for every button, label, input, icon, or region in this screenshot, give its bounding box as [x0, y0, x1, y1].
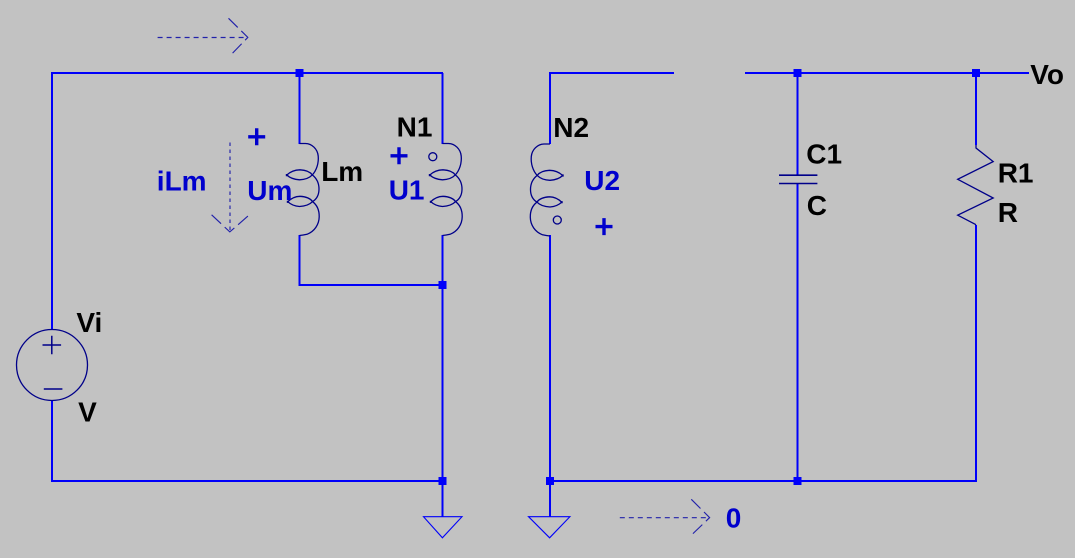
- transformer winding N1 coil arcs: [443, 144, 463, 236]
- node junction at Lm top: [296, 69, 304, 77]
- svg-text:N1: N1: [397, 111, 433, 142]
- transformer N2 polarity dot: [553, 216, 561, 224]
- transformer N2 leaf tip marks: [561, 174, 564, 203]
- svg-text:iLm: iLm: [157, 166, 207, 197]
- wire N1 top drop: [442, 73, 444, 144]
- current arrow iLm (downward): [212, 143, 250, 233]
- wire Lm bottom to node: [299, 284, 443, 286]
- svg-text:0: 0: [726, 503, 742, 534]
- svg-text:R1: R1: [998, 158, 1034, 189]
- current arrow top (input current): [158, 18, 248, 56]
- wire top rail right: [745, 72, 1029, 74]
- label plus U2: [596, 218, 613, 235]
- svg-text:R: R: [998, 197, 1018, 228]
- capacitor C1 plates: [779, 175, 817, 183]
- wire C1 top drop: [797, 73, 799, 175]
- ground secondary: [529, 481, 570, 538]
- inductor Lm leaf 1: [287, 170, 313, 180]
- wire N1 bottom drop: [442, 235, 444, 285]
- svg-text:V: V: [78, 396, 97, 427]
- wire R1 top drop: [975, 73, 977, 145]
- svg-text:N2: N2: [553, 112, 589, 143]
- wire C1 bottom drop: [797, 184, 799, 481]
- resistor R1 zigzag: [958, 145, 994, 225]
- node junction primary ground: [439, 477, 447, 485]
- wire bottom rail right: [550, 480, 976, 482]
- transformer winding N2 coil arcs: [530, 144, 550, 236]
- voltage source plus: [43, 336, 62, 355]
- transformer N2 leaf 2: [537, 197, 562, 207]
- arrow node 0 (output reference): [620, 499, 710, 536]
- svg-text:Vi: Vi: [76, 307, 102, 338]
- wire bottom rail left: [51, 480, 443, 482]
- svg-text:Lm: Lm: [321, 156, 363, 187]
- transformer N1 leaf 2: [431, 196, 456, 206]
- transformer N1 leaf 1: [430, 170, 456, 180]
- wire Lm top drop: [299, 73, 301, 144]
- wire N2 top drop: [549, 72, 551, 144]
- svg-text:Um: Um: [247, 175, 292, 206]
- inductor Lm leaf 2: [288, 196, 313, 206]
- node junction C1 bottom: [794, 477, 802, 485]
- wire left column lower: [51, 400, 53, 482]
- node junction secondary ground: [546, 477, 554, 485]
- label plus Um: [248, 128, 265, 145]
- voltage source minus: [44, 388, 63, 390]
- svg-text:Vo: Vo: [1030, 59, 1064, 90]
- inductor Lm coil arcs: [300, 144, 320, 236]
- wire N2 bottom drop: [549, 235, 551, 482]
- voltage source Vi circle: [17, 330, 88, 401]
- wire N1 node to ground rail: [442, 285, 444, 481]
- transformer N1 polarity dot: [429, 153, 437, 161]
- label plus U1: [391, 147, 408, 164]
- svg-text:C: C: [807, 190, 827, 221]
- node junction C1 top: [794, 69, 802, 77]
- wire Lm bottom drop: [299, 235, 301, 286]
- svg-text:U1: U1: [389, 174, 425, 205]
- transformer N2 leaf 1: [537, 170, 563, 180]
- svg-text:U2: U2: [584, 165, 620, 196]
- node junction R1 top: [972, 69, 980, 77]
- wire top rail left: [51, 72, 443, 74]
- transformer N1 leaf tip marks: [429, 174, 432, 203]
- wire left column: [51, 72, 53, 330]
- inductor Lm leaf tip marks: [286, 174, 289, 203]
- wire top rail middle: [550, 72, 674, 74]
- node junction at N1 bottom: [439, 281, 447, 289]
- svg-text:C1: C1: [806, 139, 842, 170]
- wire R1 bottom drop: [975, 225, 977, 482]
- ground primary: [424, 481, 463, 538]
